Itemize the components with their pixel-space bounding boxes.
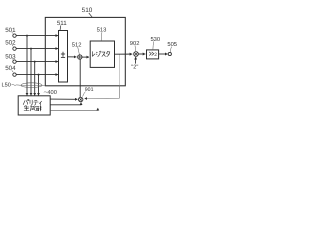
svg-text:510: 510 [82, 7, 93, 14]
junction dot 501/bus1 [26, 35, 28, 37]
svg-text:505: 505 [167, 41, 177, 48]
port 501 [5, 27, 16, 37]
wire 511 out to 512 [68, 56, 77, 58]
junction dot 502/bus2 [30, 48, 32, 50]
adder 512 (circle with +) [78, 55, 82, 59]
wire 503 to 511 [16, 61, 58, 63]
wire L50 leader line through bundle [19, 84, 45, 86]
value >>2 in shifter [149, 52, 154, 56]
svg-text:513: 513 [97, 27, 107, 34]
register 513 (box) [90, 41, 114, 67]
wire 902 to shifter 530 [138, 53, 145, 55]
wire parity out3 (lower output, turns up at right end) [50, 108, 98, 110]
wire parity out2 up into XOR 901 bottom [50, 102, 81, 104]
label 511 [57, 20, 67, 31]
svg-text:2: 2 [154, 52, 157, 58]
wire 512 out to register 513 [82, 56, 89, 58]
label 901 [83, 87, 94, 97]
svg-text:"2": "2" [131, 65, 138, 71]
wire constant 2 up into 902 [135, 57, 137, 64]
wire 504 to 511 [16, 74, 58, 76]
bundle ellipse around bus [21, 83, 42, 88]
text パリティ in parity box [23, 99, 41, 105]
label 400 [44, 90, 57, 96]
node L50 (bus bundle label) [2, 83, 20, 89]
svg-text:504: 504 [5, 65, 16, 72]
wire bus3 down to parity generator [34, 62, 36, 96]
wire 901 up to adder 512 [79, 59, 81, 97]
wire 501 to 511 [16, 35, 58, 37]
wire bus4 down to parity generator [38, 75, 40, 96]
label 512 [72, 41, 82, 54]
block 510 (outer box) [45, 17, 125, 85]
multiplier 902 (circle with x) [134, 52, 139, 57]
svg-text:512: 512 [72, 41, 82, 48]
wire bus2 down to parity generator [30, 49, 32, 96]
port 504 [5, 65, 16, 76]
parity generator 400 (box) [18, 96, 50, 115]
junction dot 503/bus3 [34, 61, 36, 63]
label 530 [150, 36, 160, 49]
label 902 [130, 40, 140, 51]
text レジスタ in register [92, 51, 109, 57]
selector 511 (tall box) [59, 31, 68, 83]
shifter 530 (box) [147, 50, 159, 59]
wire parity out1 to XOR 901 [50, 98, 77, 100]
svg-text:902: 902 [130, 40, 140, 47]
value ± inside 511 [61, 52, 65, 58]
wire 502 to 511 [16, 48, 58, 50]
port 502 [5, 39, 16, 50]
svg-text:L50: L50 [2, 83, 11, 89]
svg-text:501: 501 [5, 27, 16, 34]
svg-text:511: 511 [57, 20, 67, 27]
port 503 [5, 53, 16, 63]
XOR 901 (circle with x) [79, 97, 83, 101]
wire 530 to port 505 [159, 53, 168, 55]
label 510 [82, 7, 93, 17]
wire bus1 down to parity generator [26, 36, 28, 96]
svg-text:502: 502 [5, 39, 16, 46]
wire register out to multiplier 902 [115, 53, 133, 55]
port 505 [167, 41, 177, 56]
svg-text:530: 530 [150, 36, 160, 43]
junction dot 504/bus4 [38, 74, 40, 76]
svg-text:901: 901 [85, 87, 94, 93]
svg-text:400: 400 [47, 90, 57, 96]
wire feedback from register output junction down into XOR 901 [118, 54, 120, 85]
text 生成部 in parity box [24, 105, 41, 111]
label 513 [97, 27, 107, 41]
svg-text:503: 503 [5, 53, 16, 60]
